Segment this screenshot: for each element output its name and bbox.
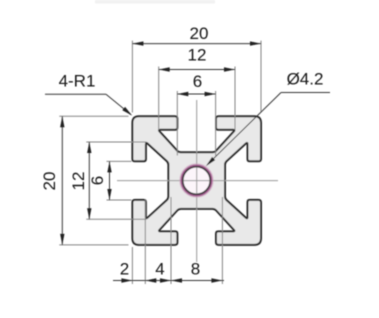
svg-text:6: 6 — [193, 72, 202, 91]
svg-text:8: 8 — [191, 260, 200, 279]
extrusion profile body — [132, 116, 261, 245]
dim top 6 extension lines — [176, 91, 178, 156]
dim 4 arrow — [160, 278, 171, 282]
dim 2 arrows — [121, 278, 132, 282]
svg-text:2: 2 — [120, 260, 129, 279]
svg-text:20: 20 — [40, 172, 59, 191]
dim top 12 — [159, 69, 235, 71]
dim top 20 — [132, 43, 261, 45]
dim bottom extension lines — [131, 247, 133, 284]
dim left 12 — [88, 142, 90, 219]
dim left 20 extension lines — [59, 115, 128, 117]
dim left 20 — [61, 116, 63, 245]
dim top 12 extension lines — [158, 67, 160, 130]
svg-text:20: 20 — [190, 24, 209, 43]
dim top 20 extension lines — [131, 41, 133, 113]
centerline vertical — [196, 100, 198, 262]
dim bottom line — [113, 280, 224, 282]
dim top 6 — [177, 93, 215, 95]
dim left 6 — [109, 161, 111, 200]
thread circle (magenta) — [181, 165, 211, 195]
svg-text:12: 12 — [188, 46, 207, 65]
cropped artifact top bar — [95, 0, 215, 4]
label 4-R1 leader — [45, 93, 106, 95]
svg-text:Ø4.2: Ø4.2 — [287, 70, 324, 89]
label O4.2 leader — [281, 92, 330, 94]
svg-text:4-R1: 4-R1 — [59, 72, 96, 91]
hole circle O4.2 — [183, 167, 211, 195]
centerline horizontal — [117, 180, 278, 182]
dim 8 arrows — [171, 278, 182, 282]
svg-text:4: 4 — [155, 260, 164, 279]
svg-text:12: 12 — [69, 172, 88, 191]
dim left 6 extension lines — [107, 160, 132, 162]
hole interior — [182, 166, 211, 195]
dim left 12 extension lines — [86, 141, 146, 143]
svg-text:6: 6 — [88, 176, 107, 185]
